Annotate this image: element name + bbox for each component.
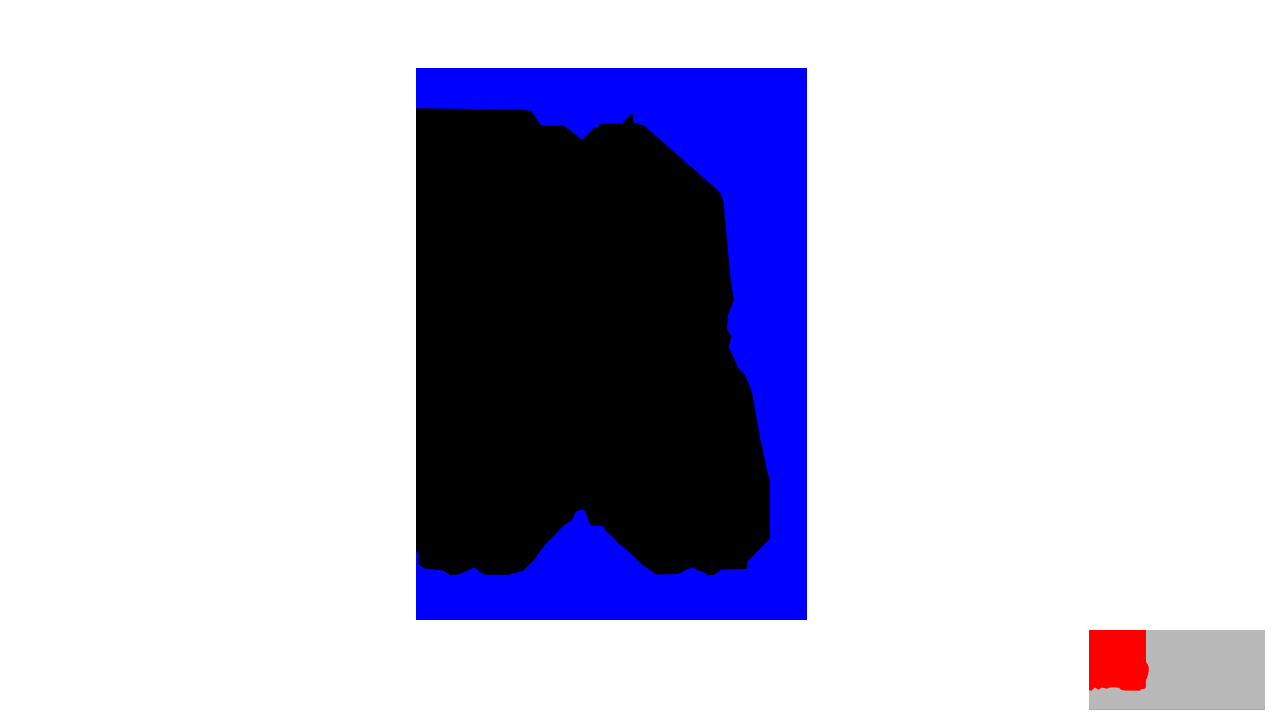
main blue image with black silhouette [416, 68, 807, 620]
gray ad box with red logo [1089, 630, 1265, 710]
